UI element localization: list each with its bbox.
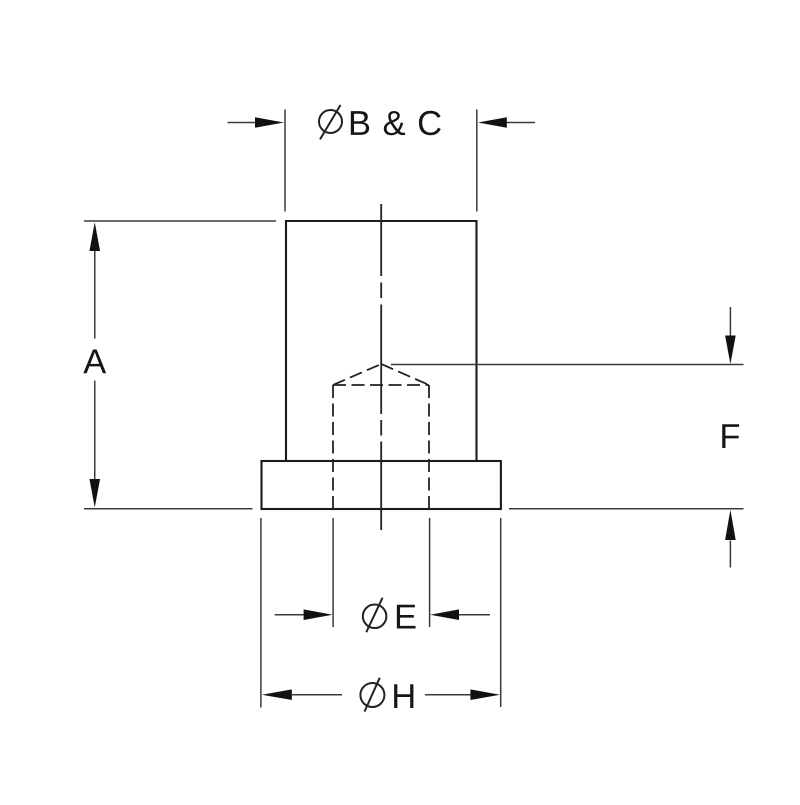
dim F top arrow [729, 307, 731, 336]
dim H right arrow [425, 694, 471, 696]
dim E right extension line [429, 518, 431, 627]
hidden hole right wall [428, 385, 430, 509]
dim H diameter symbol [360, 683, 384, 707]
dim F leader from cone apex [391, 364, 744, 366]
hidden drill cone right side [381, 364, 429, 385]
dim H right extension line [500, 518, 502, 707]
hidden hole shoulder [333, 384, 429, 386]
vertical centerline [380, 204, 382, 530]
dim A top extension line [84, 220, 276, 222]
dim B&C left arrow [228, 122, 257, 124]
dim H left extension line [260, 518, 262, 708]
dim B&C left extension line [284, 109, 286, 211]
dim B&C diameter symbol [319, 110, 342, 133]
dim H label [394, 684, 413, 708]
dim F label [722, 424, 739, 448]
dim A line lower segment [94, 381, 96, 480]
dim E left extension line [332, 518, 334, 627]
dim A down arrow [89, 479, 100, 508]
dim F bottom arrow [729, 541, 731, 568]
hidden hole left wall [332, 385, 334, 509]
dim F bottom extension line [509, 508, 744, 510]
dim A up arrow [89, 222, 100, 251]
dim B&C right arrow [506, 122, 535, 124]
dim E right arrow [459, 614, 490, 616]
body outline (cylinder front view) [286, 221, 477, 461]
dim A line upper segment [94, 250, 96, 339]
dim H left arrow [262, 689, 292, 700]
dim A label [83, 350, 106, 374]
dim B&C label [351, 111, 441, 135]
flange outline [262, 461, 501, 509]
dim B&C right extension line [476, 109, 478, 211]
dim E diameter symbol [363, 605, 387, 629]
dim A bottom extension line [84, 508, 253, 510]
dim E label [397, 605, 416, 629]
hidden drill cone left side [333, 364, 381, 385]
dim E left arrow [275, 614, 305, 616]
